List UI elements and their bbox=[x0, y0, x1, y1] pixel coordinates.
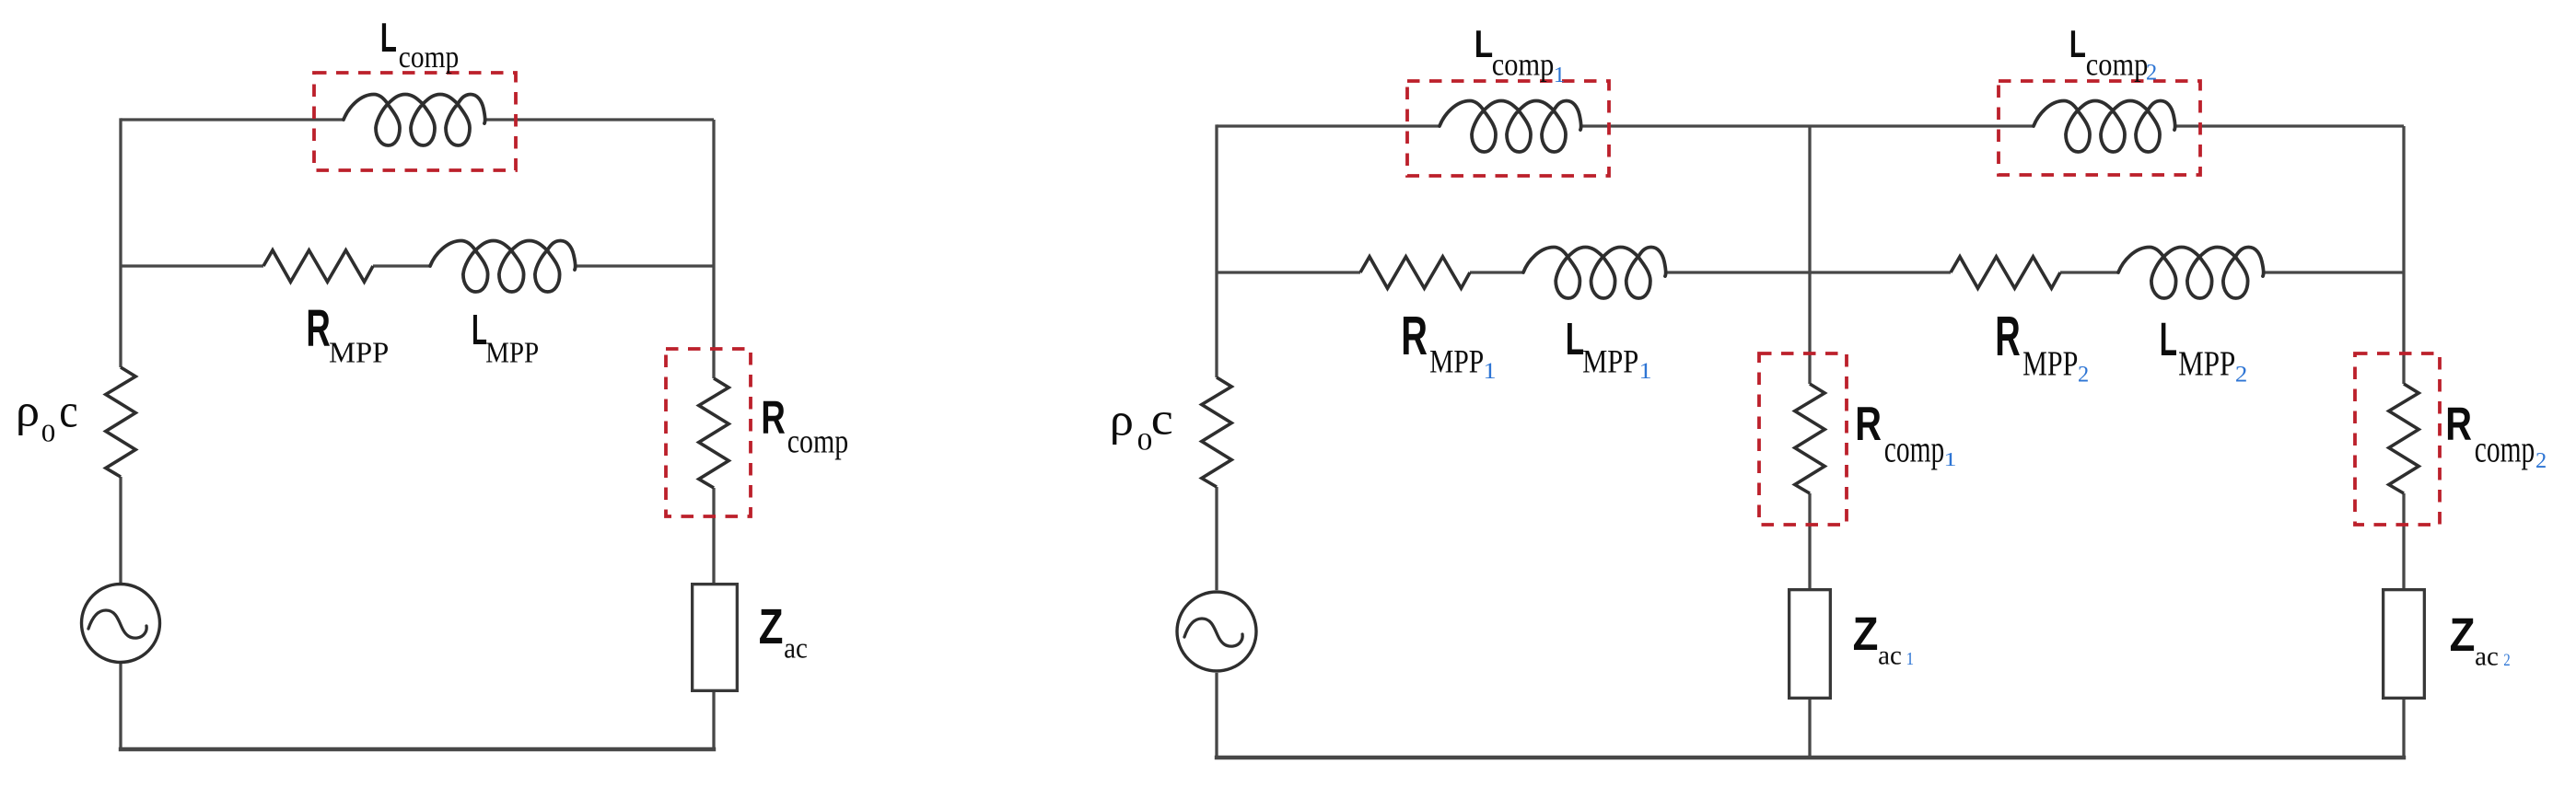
wire left vertical upper (circuit 1) bbox=[119, 118, 122, 367]
svg-text:2: 2 bbox=[2503, 651, 2510, 670]
svg-text:MPP: MPP bbox=[485, 337, 539, 369]
svg-text:2: 2 bbox=[2078, 362, 2089, 388]
svg-text:ac: ac bbox=[1878, 642, 1902, 671]
svg-text:L: L bbox=[1474, 22, 1493, 65]
svg-text:1: 1 bbox=[1906, 649, 1915, 669]
wire right vertical upper (circuit 1) bbox=[712, 120, 715, 378]
dashed highlight box around Rcomp bbox=[666, 349, 751, 516]
wire middle branch right segment (circuit 1) bbox=[576, 264, 714, 267]
inductor Lcomp2 bbox=[2034, 101, 2175, 153]
inductor LMPP2 bbox=[2118, 248, 2264, 299]
svg-text:comp: comp bbox=[1884, 427, 1944, 469]
svg-text:c: c bbox=[1151, 393, 1173, 445]
label RMPP bbox=[306, 299, 389, 369]
label LMPP1 bbox=[1566, 314, 1652, 384]
svg-text:ac: ac bbox=[784, 632, 808, 665]
label Lcomp2 bbox=[2069, 22, 2157, 86]
ac source (circuit 1) bbox=[82, 584, 160, 663]
svg-text:MPP: MPP bbox=[2178, 345, 2235, 384]
svg-text:L: L bbox=[2069, 22, 2086, 65]
svg-text:Z: Z bbox=[2450, 608, 2476, 661]
svg-text:comp: comp bbox=[399, 41, 459, 75]
dashed highlight box around Rcomp1 bbox=[1759, 353, 1847, 525]
svg-text:R: R bbox=[306, 299, 330, 357]
label Lcomp bbox=[380, 14, 459, 75]
inductor Lcomp1 bbox=[1440, 101, 1581, 153]
wire left vertical below source (circuit 1) bbox=[119, 664, 122, 749]
wire bottom wire (circuit 2) bbox=[1215, 756, 2406, 760]
wire centre vertical upper (circuit 2) bbox=[1808, 126, 1811, 384]
label Rcomp1 bbox=[1855, 398, 1957, 470]
svg-text:2: 2 bbox=[2235, 362, 2247, 388]
label LMPP bbox=[472, 306, 539, 369]
label LMPP2 bbox=[2160, 313, 2247, 388]
label Zac2 bbox=[2450, 608, 2511, 672]
label Rcomp bbox=[761, 391, 848, 459]
svg-text:2: 2 bbox=[2535, 449, 2547, 473]
svg-text:R: R bbox=[1995, 305, 2021, 367]
resistor Rcomp1 bbox=[1795, 384, 1824, 493]
dashed highlight box around Lcomp bbox=[314, 73, 516, 170]
svg-text:ρ: ρ bbox=[16, 385, 40, 436]
svg-text:0: 0 bbox=[41, 419, 56, 447]
label Rcomp2 bbox=[2445, 398, 2547, 473]
wire top-right segment (circuit 1) bbox=[485, 118, 714, 121]
svg-text:1: 1 bbox=[1943, 448, 1956, 470]
svg-text:1: 1 bbox=[1483, 357, 1496, 384]
svg-text:R: R bbox=[1855, 398, 1882, 451]
wire left vertical between resistor and source (circuit 1) bbox=[119, 477, 122, 583]
wire right vertical mid (circuit 2) bbox=[2402, 493, 2405, 588]
svg-text:Z: Z bbox=[1853, 608, 1879, 660]
wire left vertical below source (circuit 2) bbox=[1215, 673, 1218, 758]
wire middle branch left segment (circuit 1) bbox=[121, 264, 263, 267]
svg-text:comp: comp bbox=[787, 422, 848, 459]
svg-text:R: R bbox=[761, 391, 785, 444]
svg-text:L: L bbox=[1566, 314, 1584, 365]
svg-text:ρ: ρ bbox=[1110, 394, 1134, 446]
label rho0c (circuit 2) bbox=[1110, 393, 1173, 456]
svg-text:1: 1 bbox=[1554, 63, 1566, 87]
svg-text:ac: ac bbox=[2475, 642, 2499, 672]
label RMPP2 bbox=[1995, 305, 2089, 388]
label RMPP1 bbox=[1401, 305, 1497, 384]
resistor RMPP bbox=[263, 250, 373, 282]
svg-text:R: R bbox=[2445, 398, 2472, 450]
svg-text:comp: comp bbox=[2475, 427, 2535, 469]
wire middle branch segment B (circuit 2) bbox=[1470, 271, 1523, 273]
svg-text:L: L bbox=[380, 14, 397, 61]
resistor rho0c bbox=[106, 367, 135, 477]
label rho0c (circuit 1) bbox=[16, 385, 78, 448]
wire centre vertical lower (circuit 2) bbox=[1808, 700, 1811, 758]
resistor Rcomp bbox=[699, 378, 729, 488]
wire middle branch segment C (circuit 2) bbox=[1666, 271, 1951, 273]
svg-text:R: R bbox=[1401, 305, 1428, 366]
svg-text:MPP: MPP bbox=[2022, 345, 2078, 384]
svg-text:L: L bbox=[2160, 313, 2177, 365]
dashed highlight box around Lcomp2 bbox=[1999, 81, 2200, 175]
resistor RMPP2 bbox=[1951, 257, 2060, 288]
svg-text:comp: comp bbox=[1492, 47, 1555, 83]
wire middle branch segment D (circuit 2) bbox=[2060, 271, 2118, 273]
wire left vertical upper (circuit 2) bbox=[1215, 124, 1218, 377]
inductor LMPP1 bbox=[1523, 248, 1666, 299]
wire top wire segment B (circuit 2) bbox=[1581, 124, 2034, 127]
label Lcomp1 bbox=[1474, 22, 1566, 87]
svg-text:MPP: MPP bbox=[329, 337, 389, 369]
wire right vertical lower (circuit 1) bbox=[712, 692, 715, 749]
impedance Zac1 box bbox=[1789, 590, 1831, 699]
impedance Zac2 box bbox=[2384, 590, 2425, 699]
impedance Zac box bbox=[693, 584, 738, 691]
svg-text:c: c bbox=[59, 386, 77, 438]
wire right vertical lower (circuit 2) bbox=[2402, 700, 2405, 758]
wire top-left segment (circuit 1) bbox=[121, 118, 344, 121]
wire bottom wire (circuit 1) bbox=[119, 747, 716, 751]
svg-text:comp: comp bbox=[2086, 47, 2149, 83]
wire middle branch centre segment (circuit 1) bbox=[373, 264, 430, 267]
wire middle branch segment A (circuit 2) bbox=[1217, 271, 1360, 273]
inductor Lcomp bbox=[344, 95, 485, 146]
wire left vertical between resistor and source (circuit 2) bbox=[1215, 487, 1218, 590]
wire top wire segment A (circuit 2) bbox=[1217, 124, 1440, 127]
ac source (circuit 2) bbox=[1177, 592, 1256, 671]
resistor Rcomp2 bbox=[2389, 384, 2419, 493]
dashed highlight box around Rcomp2 bbox=[2355, 353, 2440, 525]
svg-text:2: 2 bbox=[2146, 60, 2157, 86]
svg-text:1: 1 bbox=[1638, 357, 1651, 384]
resistor rho0c (circuit 2) bbox=[1202, 377, 1231, 487]
label Zac1 bbox=[1853, 608, 1915, 671]
inductor LMPP bbox=[430, 241, 576, 293]
wire middle branch segment E (circuit 2) bbox=[2264, 271, 2404, 273]
wire centre vertical mid (circuit 2) bbox=[1808, 493, 1811, 588]
label Zac bbox=[759, 599, 808, 665]
wire top wire segment C (circuit 2) bbox=[2175, 124, 2404, 127]
wire right vertical mid (circuit 1) bbox=[712, 488, 715, 583]
resistor RMPP1 bbox=[1360, 257, 1470, 288]
svg-text:Z: Z bbox=[759, 599, 784, 654]
svg-text:MPP: MPP bbox=[1582, 343, 1638, 380]
svg-text:MPP: MPP bbox=[1429, 343, 1484, 380]
dashed highlight box around Lcomp1 bbox=[1407, 81, 1609, 176]
wire right vertical upper (circuit 2) bbox=[2402, 126, 2405, 384]
